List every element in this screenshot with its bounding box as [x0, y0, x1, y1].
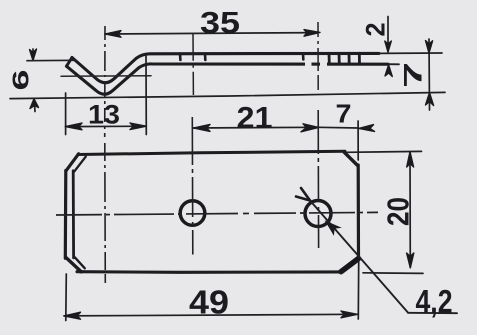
dimension 6 bottom arrow pointing up	[30, 99, 39, 109]
dimension 6 top arrow pointing down	[30, 49, 37, 61]
dimension 49 right extension line	[357, 261, 359, 319]
dimension 13 right arrow	[130, 123, 146, 130]
side view: bend axis phantom line across V	[61, 75, 151, 78]
plan view: left edge inner (bend)	[72, 171, 75, 258]
plan view: top-left chamfer outer	[66, 154, 79, 171]
dimension 21 line	[193, 126, 319, 129]
dimension 20 top extension line	[346, 150, 422, 153]
dimension 2 arrow pointing down	[385, 41, 392, 52]
dimension 35 left arrow	[105, 31, 121, 38]
plan view: top-left chamfer inner	[74, 157, 86, 172]
leader 4,2 horizontal underline	[408, 312, 457, 314]
plan view: top-right chamfer	[344, 152, 358, 166]
svg-text:13: 13	[88, 100, 120, 130]
dimension 13 left arrow	[65, 123, 82, 130]
side view: bottom surface extension stub for dimension 2	[388, 63, 399, 65]
plan view horizontal centerline	[56, 212, 378, 215]
dimension 20 line	[409, 152, 411, 268]
leader 4,2 arrow pointing to hole edge	[326, 222, 340, 235]
plan view: bottom-left chamfer inner	[75, 257, 85, 268]
side view: hole edge tick right hole near side	[302, 54, 305, 60]
dimension 20 bottom arrow pointing down	[407, 253, 414, 268]
dimension 2 arrow pointing up below strip	[385, 65, 392, 77]
left hole centerline projection in side view	[192, 34, 194, 95]
side view: serration tooth tick 1	[328, 54, 331, 65]
extension line for plate right edge (dims 7 and 49) top	[357, 121, 359, 160]
dimension 7 side view line	[428, 39, 431, 110]
long shared extension line under side view	[10, 92, 445, 98]
svg-text:7: 7	[336, 99, 352, 129]
bend centerline dash-dot in side view	[104, 26, 106, 137]
dimension 6 top extension line	[27, 59, 76, 61]
side view: serration gap in bottom surface 2	[320, 62, 327, 66]
dimension 7 bottom arrow pointing up	[426, 93, 434, 106]
dimension 13 left extension line	[65, 93, 67, 135]
svg-text:20: 20	[381, 197, 416, 226]
dimension 13 line	[66, 125, 146, 127]
dimension 21 right arrow shared with 7	[301, 124, 319, 132]
plan view: plate top edge	[78, 151, 345, 154]
svg-text:7: 7	[400, 62, 428, 88]
dimension 20 bottom extension line	[363, 272, 423, 275]
bend centerline dash-dot in plan view	[104, 143, 107, 283]
plan view: bottom-left chamfer outer	[66, 258, 81, 272]
side view: serration tooth tick 2	[338, 53, 341, 64]
dimension 2 line above	[387, 17, 389, 52]
side view: bent strip upper surface	[72, 53, 379, 82]
side view: hole edge tick left hole near side	[179, 54, 182, 61]
hole left vertical centerline	[191, 117, 194, 255]
right hole centerline projection in side view	[317, 22, 319, 90]
dimension 13 right extension line	[145, 56, 147, 135]
dimension 7 top arrow pointing down	[426, 41, 433, 54]
dimension 35 line	[105, 33, 318, 34]
svg-text:21: 21	[237, 100, 273, 135]
hole right vertical centerline	[317, 110, 319, 248]
svg-text:4,2: 4,2	[416, 284, 453, 320]
dimension 20 top arrow pointing up	[407, 152, 414, 167]
side view: serration tooth tick 4	[358, 53, 361, 64]
hole left	[180, 201, 205, 226]
plan view: right edge	[357, 165, 360, 259]
dimension 7 plan outside arrow pointing left	[359, 125, 375, 132]
plan view: bottom edge	[77, 270, 342, 274]
leader line 4,2 diagonal through right hole	[310, 201, 408, 313]
dimension 49 left extension line	[65, 274, 68, 321]
dimension 21 left arrow	[193, 124, 210, 131]
dimension 49 right arrow	[341, 311, 357, 318]
dimension 6 line above	[32, 49, 34, 61]
dimension 7 plan line	[319, 126, 359, 129]
side view: top surface extension line to dimension 7	[379, 52, 442, 54]
svg-text:6: 6	[8, 70, 34, 91]
dimension 6 line below	[34, 99, 35, 112]
hole right	[305, 201, 331, 227]
side view: serration tooth tick 3	[348, 53, 351, 64]
side view: bent strip lower surface	[67, 64, 389, 94]
side view: hole edge tick left hole far side	[204, 54, 207, 61]
side view: serration gap in bottom surface 1	[305, 62, 312, 66]
svg-text:49: 49	[189, 284, 229, 321]
svg-text:2: 2	[361, 23, 391, 37]
dimension 49 line	[64, 314, 357, 316]
plan view: bottom-right chamfer thick	[341, 259, 359, 272]
plan view: left edge outer (bend)	[64, 171, 68, 259]
leader 4,2 fork end barb 1	[301, 188, 310, 201]
dimension 49 left arrow	[64, 312, 81, 319]
leader 4,2 fork end barb 2	[296, 197, 310, 201]
dimension 35 right arrow	[304, 30, 320, 37]
side view: strip left end face	[67, 58, 73, 67]
svg-text:35: 35	[200, 5, 240, 40]
